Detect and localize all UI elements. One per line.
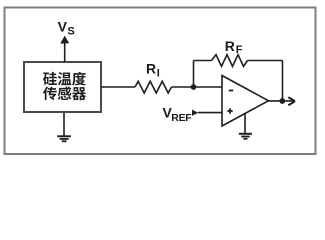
label RI xyxy=(146,61,160,80)
wire junction riser to feedback xyxy=(193,61,195,88)
label VREF xyxy=(163,104,193,124)
wire sensor output to RI xyxy=(101,86,135,88)
ground (op-amp) xyxy=(239,113,252,139)
label RF xyxy=(225,38,243,56)
wire RI to op-amp inverting input xyxy=(172,86,223,88)
op-amp U2 xyxy=(222,76,269,127)
wire op-amp output xyxy=(269,100,295,102)
node VREF input arrow xyxy=(192,110,198,116)
svg-text:R: R xyxy=(146,61,156,77)
border frame xyxy=(5,8,316,155)
node VS supply arrow xyxy=(60,36,69,62)
sensor box U1 (silicon temperature sensor) xyxy=(24,62,101,112)
resistor RF xyxy=(212,55,248,67)
label VS xyxy=(58,19,75,38)
wire feedback right xyxy=(248,60,283,62)
svg-text:REF: REF xyxy=(171,112,192,124)
wire VREF to op-amp non-inverting input xyxy=(198,112,222,114)
wire feedback left xyxy=(194,60,212,62)
svg-text:I: I xyxy=(157,68,160,80)
node output arrow xyxy=(288,97,295,105)
resistor RI xyxy=(135,81,172,93)
ground (sensor) xyxy=(57,113,71,141)
node output junction xyxy=(279,98,285,104)
svg-text:S: S xyxy=(67,25,74,37)
wire feedback drop to output xyxy=(282,61,284,102)
svg-text:F: F xyxy=(236,44,243,56)
svg-text:V: V xyxy=(58,19,68,35)
svg-text:R: R xyxy=(225,38,235,54)
junction node A xyxy=(191,84,197,90)
